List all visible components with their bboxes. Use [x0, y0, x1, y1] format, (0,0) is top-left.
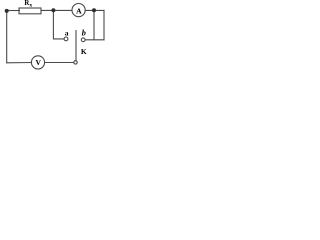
svg-text:a: a: [65, 28, 69, 37]
switch K pivot terminal circle: [74, 61, 77, 64]
svg-text:K: K: [81, 47, 87, 56]
ammeter A: [72, 4, 85, 17]
switch K blade: [75, 31, 77, 61]
switch contact b circle: [81, 38, 85, 42]
wire right rail: [103, 10, 105, 39]
wire from node after A down to contact b wire: [93, 10, 95, 39]
svg-text:b: b: [82, 29, 86, 38]
wire from node between Rx and A down to contact a: [53, 11, 64, 39]
node junction dot top-left: [5, 9, 9, 13]
voltmeter V: [31, 56, 44, 69]
node junction dot between Rx and A: [51, 8, 55, 12]
wire left rail: [6, 11, 8, 63]
node junction dot after A: [92, 8, 96, 12]
resistor Rx: [19, 8, 41, 14]
wire ammeter to top-right corner: [85, 9, 104, 11]
svg-text:V: V: [35, 58, 41, 67]
wire between resistor and ammeter: [41, 9, 72, 11]
wire top-left segment: [7, 10, 20, 12]
svg-text:A: A: [76, 7, 82, 16]
wire bottom rail left of voltmeter: [7, 62, 32, 64]
wire from contact b to right rail: [85, 39, 104, 41]
wire bottom rail right of voltmeter: [45, 62, 74, 64]
switch contact a circle: [64, 37, 68, 41]
svg-text:Rx: Rx: [24, 0, 32, 8]
